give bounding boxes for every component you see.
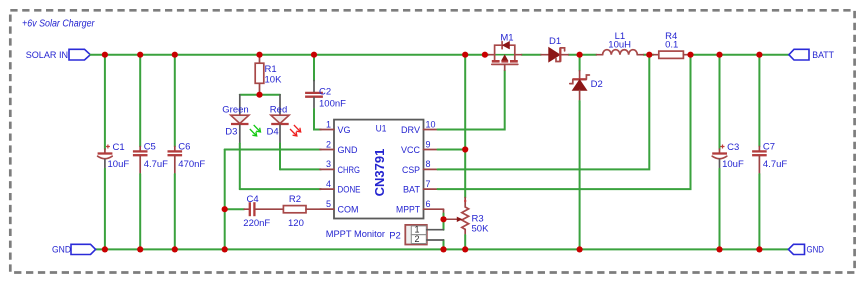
resistor R2 [255,194,334,229]
svg-text:SOLAR IN: SOLAR IN [26,50,69,61]
capacitor C3 [712,55,744,250]
svg-text:0.1: 0.1 [665,40,678,51]
wire LED anode rail [240,94,280,96]
wire DRV to M1 gate [438,70,505,129]
svg-text:BATT: BATT [812,50,834,61]
svg-text:6: 6 [426,199,431,209]
junction GND rail pin2 column [222,246,228,252]
wire CSP net [438,55,650,170]
svg-text:1: 1 [326,119,331,129]
svg-text:Red: Red [270,105,287,116]
svg-text:50K: 50K [472,224,490,235]
junction GND rail R3 [462,246,468,252]
pin 3 CHRG [320,159,360,176]
capacitor C1 [98,55,130,250]
transistor M1 (P-MOSFET) [489,32,522,70]
junction MPPT wiper [440,216,446,222]
junction R1 bottom LED rail [256,92,262,98]
wire VCC net [438,149,466,151]
wire top rail left (SOLAR IN to M1 source) [90,54,488,56]
wire top rail R4 to BATT [689,54,789,56]
svg-text:8: 8 [426,159,431,169]
wire VCC to R3 [464,150,466,198]
ground GND left flag [52,244,96,255]
svg-text:D4: D4 [267,126,279,137]
svg-text:P2: P2 [389,231,401,242]
LED D3 (green) [222,95,260,189]
wire pin2 GND net [225,149,321,151]
svg-text:Green: Green [222,105,248,116]
capacitor C5 [133,55,168,250]
svg-text:+6v Solar Charger: +6v Solar Charger [22,19,95,30]
svg-text:2: 2 [326,139,331,149]
node SOLAR_IN flag [26,49,91,61]
svg-text:D3: D3 [225,126,237,137]
svg-text:DRV: DRV [401,125,421,136]
inductor L1 [597,31,644,55]
junction GND rail C5 [137,246,143,252]
svg-text:4: 4 [326,179,331,189]
svg-text:9: 9 [426,139,431,149]
svg-text:R1: R1 [265,64,277,75]
svg-text:4.7uF: 4.7uF [144,159,168,170]
svg-text:R2: R2 [289,194,301,205]
svg-text:5: 5 [326,199,331,209]
wire MPPT vertical [443,209,445,213]
svg-text:10uH: 10uH [608,40,631,51]
junction GND rail C7 [756,246,762,252]
junction top rail M1 source [482,52,488,58]
svg-text:220nF: 220nF [243,218,270,229]
svg-text:MPPT Monitor: MPPT Monitor [326,229,385,240]
svg-text:1: 1 [414,224,419,234]
svg-text:D2: D2 [591,79,603,90]
junction top rail C6 [172,52,178,58]
pin 2 GND [320,139,358,156]
resistor R1 [255,55,282,95]
svg-text:DONE: DONE [338,185,361,196]
wire [104,55,106,149]
pin 9 VCC [401,139,438,156]
svg-text:GND: GND [807,245,825,256]
svg-text:CN3791: CN3791 [372,149,387,197]
svg-text:VCC: VCC [401,145,420,156]
svg-text:10uF: 10uF [108,159,130,170]
svg-text:D1: D1 [549,36,561,47]
svg-text:C6: C6 [178,141,190,152]
svg-text:120: 120 [288,218,304,229]
pin 5 COM [320,199,359,216]
diode D2 [570,55,603,250]
svg-text:10K: 10K [265,74,283,85]
wire top rail M1 to D1 [522,54,542,56]
junction switch node D2 [577,52,583,58]
wire VCC to top rail [464,55,466,150]
junction top rail C7 [756,52,762,58]
connector P2 [326,224,444,244]
svg-text:C7: C7 [763,141,775,152]
junction VCC pin9 [462,146,468,152]
svg-text:C3: C3 [727,142,739,153]
pin 10 DRV [401,119,438,136]
junction top rail VCC [462,52,468,58]
node BATT flag [789,49,834,61]
svg-text:C5: C5 [144,141,156,152]
svg-text:4.7uF: 4.7uF [763,159,787,170]
svg-text:470nF: 470nF [178,159,205,170]
svg-text:C4: C4 [247,194,259,205]
junction top rail R1 [256,52,262,58]
svg-text:2: 2 [414,234,419,244]
resistor R4 [653,31,689,58]
svg-text:C2: C2 [319,87,331,98]
pin 6 MPPT [396,199,444,216]
junction GND rail C1 [102,246,108,252]
svg-text:CHRG: CHRG [338,165,361,176]
wire P2 pin2 to GND [443,240,445,249]
svg-text:U1: U1 [376,123,387,134]
pin 8 CSP [402,159,438,176]
pin 4 DONE [320,179,361,196]
wire BAT net [438,55,691,189]
junction top rail C2 [311,52,317,58]
svg-text:10: 10 [426,119,436,129]
svg-text:BAT: BAT [403,185,420,196]
junction C4 branch [222,206,228,212]
LED D4 (red) [267,95,301,170]
svg-text:MPPT: MPPT [396,205,420,216]
capacitor C2 [305,55,346,130]
junction top rail C3 [716,52,722,58]
svg-text:CSP: CSP [402,165,420,176]
wire top rail D1 to L1 [568,54,596,56]
junction top rail C1 [102,52,108,58]
wire D3 to DONE [240,188,321,190]
svg-text:GND: GND [338,145,358,156]
junction top rail CSP [646,52,652,58]
ground GND right flag [788,244,824,255]
wire bottom GND rail [96,248,789,250]
diode D1 [541,36,568,62]
wire top rail L1 to R4 [643,54,653,56]
svg-text:C1: C1 [113,142,125,153]
capacitor C4 [225,194,271,229]
wire D4 to CHRG [280,168,321,170]
capacitor C6 [168,55,206,250]
junction GND rail C6 [172,246,178,252]
svg-text:10uF: 10uF [722,159,744,170]
svg-text:M1: M1 [500,32,513,43]
svg-text:COM: COM [338,205,359,216]
junction GND rail D2 [577,246,583,252]
pin 1 VG [320,119,351,136]
svg-text:GND: GND [52,245,71,256]
potentiometer R3 [444,198,490,250]
wire GND column [224,150,226,250]
op-amp U1 CN3791 body [334,120,424,219]
svg-text:7: 7 [426,179,431,189]
pin 7 BAT [403,179,438,196]
junction GND rail C3 [716,246,722,252]
junction top rail BAT [687,52,693,58]
junction GND rail P2 [440,246,446,252]
svg-text:3: 3 [326,159,331,169]
capacitor C7 [752,55,787,250]
svg-text:VG: VG [338,125,351,136]
junction top rail C5 [137,52,143,58]
svg-text:100nF: 100nF [319,98,346,109]
